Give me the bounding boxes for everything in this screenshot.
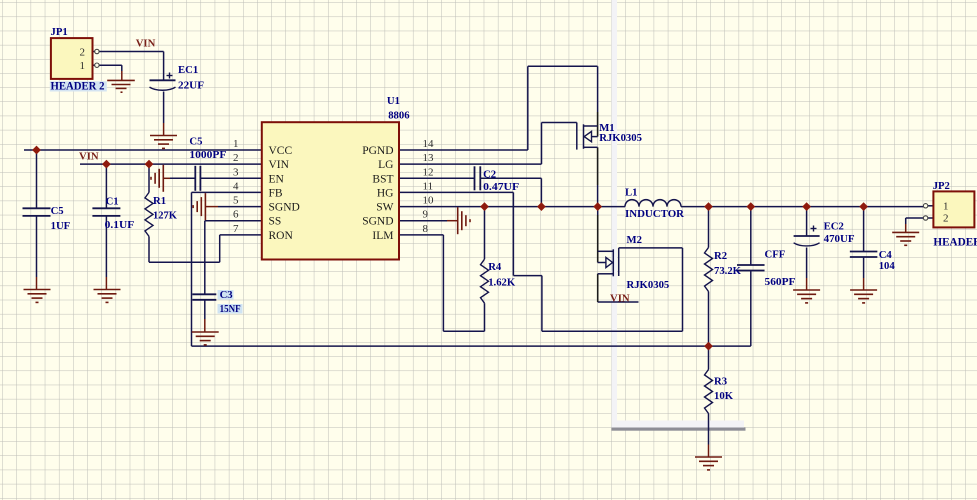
svg-text:560PF: 560PF [765, 276, 796, 288]
svg-text:0.47UF: 0.47UF [483, 181, 520, 193]
svg-text:FB: FB [269, 187, 283, 199]
svg-text:VIN: VIN [79, 151, 99, 163]
svg-text:22UF: 22UF [178, 80, 204, 92]
svg-text:EC2: EC2 [824, 220, 844, 232]
svg-text:U1: U1 [387, 95, 400, 107]
svg-text:HG: HG [377, 187, 394, 199]
svg-text:1: 1 [80, 60, 86, 72]
svg-text:13: 13 [423, 152, 435, 164]
svg-text:R3: R3 [714, 376, 727, 388]
svg-text:CFF: CFF [765, 248, 786, 260]
svg-text:VCC: VCC [269, 145, 293, 157]
svg-text:C5: C5 [189, 135, 202, 147]
svg-text:VIN: VIN [269, 159, 290, 171]
svg-text:15NF: 15NF [220, 303, 241, 315]
svg-text:1.62K: 1.62K [488, 276, 516, 288]
svg-text:RON: RON [269, 230, 294, 242]
svg-text:10: 10 [423, 195, 435, 207]
svg-text:SW: SW [376, 202, 393, 214]
svg-text:LG: LG [378, 159, 393, 171]
svg-text:5: 5 [233, 195, 239, 207]
svg-text:9: 9 [423, 209, 429, 221]
svg-text:7: 7 [233, 223, 239, 235]
svg-text:SGND: SGND [362, 216, 393, 228]
svg-text:4: 4 [233, 180, 239, 192]
svg-text:ILM: ILM [372, 230, 393, 242]
svg-text:PGND: PGND [362, 145, 393, 157]
svg-text:RJK0305: RJK0305 [627, 279, 670, 291]
svg-text:127K: 127K [153, 210, 178, 222]
svg-text:EN: EN [269, 173, 285, 185]
svg-text:C1: C1 [106, 196, 119, 208]
svg-text:104: 104 [879, 260, 896, 272]
svg-text:C3: C3 [220, 289, 233, 301]
svg-text:R2: R2 [714, 250, 727, 262]
svg-text:L1: L1 [625, 187, 637, 199]
svg-text:INDUCTOR: INDUCTOR [625, 208, 684, 220]
svg-text:14: 14 [423, 138, 435, 150]
svg-text:C5: C5 [51, 205, 64, 217]
svg-text:2: 2 [80, 47, 86, 59]
svg-text:R1: R1 [153, 195, 166, 207]
svg-text:0.1UF: 0.1UF [105, 219, 135, 231]
svg-text:6: 6 [233, 209, 239, 221]
svg-text:HEADER 2: HEADER 2 [933, 237, 977, 249]
svg-text:JP1: JP1 [51, 26, 68, 38]
svg-text:11: 11 [423, 180, 434, 192]
svg-text:8: 8 [423, 223, 429, 235]
svg-text:1UF: 1UF [51, 220, 71, 232]
svg-text:2: 2 [943, 213, 949, 225]
svg-text:C2: C2 [483, 169, 496, 181]
svg-text:10K: 10K [714, 390, 734, 402]
svg-text:2: 2 [233, 152, 239, 164]
svg-text:1000PF: 1000PF [189, 149, 227, 161]
svg-text:EC1: EC1 [178, 64, 198, 76]
svg-text:3: 3 [233, 166, 239, 178]
svg-text:73.2K: 73.2K [714, 265, 742, 277]
svg-text:1: 1 [943, 200, 949, 212]
svg-text:12: 12 [423, 166, 434, 178]
svg-text:SS: SS [269, 216, 282, 228]
svg-text:SGND: SGND [269, 202, 300, 214]
svg-text:8806: 8806 [388, 109, 410, 121]
svg-text:470UF: 470UF [824, 233, 855, 245]
svg-text:1: 1 [233, 138, 239, 150]
svg-text:VIN: VIN [136, 38, 156, 50]
svg-text:HEADER 2: HEADER 2 [51, 80, 105, 92]
svg-text:M2: M2 [627, 234, 642, 246]
svg-text:BST: BST [372, 173, 393, 185]
svg-text:VIN: VIN [610, 293, 630, 305]
svg-text:JP2: JP2 [933, 180, 950, 192]
svg-text:RJK0305: RJK0305 [599, 132, 642, 144]
svg-text:R4: R4 [488, 261, 502, 273]
